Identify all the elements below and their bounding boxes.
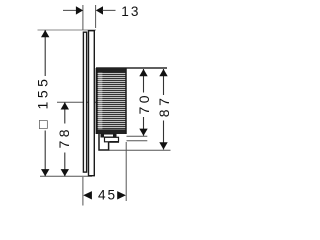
svg-text:70: 70 [136,92,152,115]
svg-text:□ 155: □ 155 [35,76,51,129]
svg-text:78: 78 [56,126,72,149]
svg-text:87: 87 [156,95,172,118]
svg-text:45: 45 [98,188,117,203]
svg-text:13: 13 [121,4,140,19]
